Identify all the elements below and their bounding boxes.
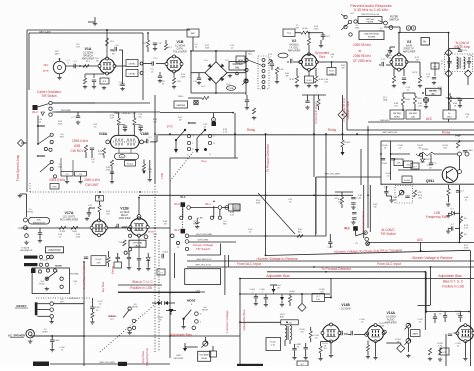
svg-text:2.2K: 2.2K (230, 214, 235, 216)
svg-text:CALIBRATOR: CALIBRATOR (20, 249, 33, 252)
svg-text:2395.4 kHz: 2395.4 kHz (72, 139, 89, 143)
svg-text:CW UNIT: CW UNIT (85, 183, 99, 187)
svg-text:MODE: MODE (188, 121, 197, 125)
svg-text:Keying: Keying (111, 265, 115, 273)
svg-text:CARRIER: CARRIER (232, 63, 243, 66)
svg-text:FUNC: FUNC (39, 283, 45, 285)
svg-text:2nd IF Amp: 2nd IF Amp (454, 45, 471, 49)
svg-text:MODE: MODE (202, 309, 209, 311)
svg-text:1/2 6GH8: 1/2 6GH8 (341, 308, 352, 310)
svg-text:PTT: PTT (148, 230, 154, 234)
svg-text:R-943: R-943 (422, 149, 429, 151)
svg-text:AMPLIFIER: AMPLIFIER (82, 58, 95, 61)
svg-text:METER: METER (393, 113, 401, 115)
svg-text:100K: 100K (464, 247, 469, 249)
svg-text:Adjusting Pots: Adjusting Pots (145, 347, 149, 365)
svg-text:WHT-BLK: WHT-BLK (69, 298, 79, 300)
svg-text:12AU7 CARRIER OSC: 12AU7 CARRIER OSC (114, 112, 137, 115)
svg-text:Frequency Shift: Frequency Shift (426, 215, 448, 219)
svg-text:1M: 1M (397, 341, 400, 343)
svg-text:MODE: MODE (132, 306, 139, 308)
svg-text:Q941: Q941 (426, 179, 434, 183)
svg-text:R-507: R-507 (345, 142, 352, 144)
svg-text:RCV CAL: RCV CAL (40, 259, 48, 262)
svg-text:1M: 1M (416, 59, 419, 61)
svg-text:A.C. SPEAKER: A.C. SPEAKER (8, 335, 25, 338)
svg-text:USB 2393.5 kHz LSB: USB 2393.5 kHz LSB (361, 14, 380, 16)
svg-text:4.7K: 4.7K (464, 227, 469, 229)
svg-text:Positive in LSB: Positive in LSB (442, 285, 463, 289)
svg-text:•Screen Voltage in Receive: •Screen Voltage in Receive (412, 256, 453, 260)
svg-text:220K: 220K (76, 236, 81, 238)
svg-text:1MA: 1MA (383, 98, 388, 101)
svg-text:Receiver Mixer: Receiver Mixer (346, 101, 350, 120)
svg-text:FUNCTION: FUNCTION (49, 250, 61, 252)
svg-text:Bias In T. U. C: Bias In T. U. C (443, 280, 464, 284)
svg-text:RED•BLK: RED•BLK (380, 120, 390, 122)
svg-text:1 Screen Voltage: 1 Screen Voltage (225, 310, 229, 333)
svg-text:AVC: AVC (426, 117, 433, 121)
svg-text:VOLTAGE: VOLTAGE (200, 354, 210, 357)
svg-text:RL2: RL2 (344, 226, 350, 230)
svg-text:6GH8: 6GH8 (467, 331, 473, 333)
svg-text:4.7K: 4.7K (417, 192, 422, 194)
svg-text:R-414: R-414 (60, 231, 66, 233)
svg-text:C-417: C-417 (95, 307, 101, 309)
svg-text:SWITCH: SWITCH (389, 19, 399, 22)
svg-text:AVC: AVC (417, 238, 424, 242)
svg-text:7.5K: 7.5K (126, 253, 131, 255)
svg-text:From ALC Input: From ALC Input (377, 262, 401, 266)
svg-text:1M: 1M (96, 60, 99, 62)
svg-text:C-67: C-67 (325, 36, 331, 38)
svg-text:RELAY: RELAY (121, 214, 129, 217)
svg-text:USB CRYSTAL: USB CRYSTAL (364, 33, 380, 36)
svg-text:Adjustable Bias: Adjustable Bias (242, 309, 246, 330)
svg-text:T/R Switch: T/R Switch (41, 94, 57, 98)
svg-text:100K: 100K (329, 74, 335, 76)
svg-text:Bias In T. U. C.: Bias In T. U. C. (132, 280, 153, 284)
svg-text:BAL: BAL (235, 67, 240, 70)
svg-text:CALIB: CALIB (134, 244, 141, 247)
svg-text:V17A: V17A (65, 211, 74, 215)
svg-text:R-57: R-57 (290, 79, 296, 81)
svg-text:METER: METER (429, 91, 437, 93)
svg-text:MIC GAIN: MIC GAIN (40, 31, 51, 34)
svg-text:WHT/GRN: WHT/GRN (174, 358, 184, 360)
svg-text:1M: 1M (374, 206, 377, 208)
svg-text:▲: ▲ (212, 199, 215, 203)
svg-text:Mode: Mode (109, 314, 117, 318)
svg-text:4.7K: 4.7K (438, 345, 443, 347)
svg-text:V2: V2 (292, 39, 297, 43)
svg-text:MODE: MODE (55, 266, 62, 268)
svg-text:LEVEL: LEVEL (129, 74, 137, 76)
svg-text:PHON: PHON (27, 211, 33, 213)
svg-text:1/2 6EA8: 1/2 6EA8 (120, 211, 130, 214)
svg-text:WHT-RED: WHT-RED (69, 274, 80, 276)
svg-text:Final Tube Amplifier: Final Tube Amplifier (82, 263, 86, 289)
svg-text:To Product Detector: To Product Detector (266, 143, 270, 172)
svg-text:GATE: GATE (412, 333, 418, 336)
svg-text:R-81: R-81 (417, 98, 423, 100)
svg-text:ALC: ALC (298, 231, 302, 234)
svg-text:FOLLOWER: FOLLOWER (173, 51, 187, 54)
svg-text:PNP: PNP (455, 134, 461, 138)
svg-text:0.35 kHz to 2.45 kHz: 0.35 kHz to 2.45 kHz (354, 8, 388, 12)
svg-text:T/R Switch: T/R Switch (380, 232, 396, 236)
svg-text:AMPLIFIER: AMPLIFIER (385, 321, 397, 324)
svg-text:LEVEL: LEVEL (129, 64, 137, 66)
svg-text:RL2: RL2 (174, 202, 180, 206)
svg-text:ZERO: ZERO (394, 117, 400, 119)
svg-text:R-502: R-502 (127, 164, 134, 166)
svg-text:2393.5 kHz: 2393.5 kHz (49, 178, 66, 182)
svg-text:C-949: C-949 (467, 150, 474, 152)
svg-text:to: to (359, 49, 362, 53)
svg-text:V1B: V1B (177, 40, 184, 44)
svg-text:4.7K: 4.7K (442, 352, 447, 354)
svg-text:V12B: V12B (120, 207, 129, 211)
svg-text:2.2K: 2.2K (271, 345, 276, 347)
svg-text:RL2: RL2 (32, 110, 38, 114)
svg-text:2392.95 kHz: 2392.95 kHz (353, 43, 371, 47)
svg-text:RL2: RL2 (174, 228, 180, 232)
svg-text:R-946: R-946 (404, 180, 411, 182)
svg-text:CF 2395 kHz: CF 2395 kHz (353, 59, 372, 63)
svg-text:V16B: V16B (140, 132, 149, 136)
svg-text:Key Bias: Key Bias (101, 281, 105, 292)
svg-text:NOR: NOR (238, 60, 243, 62)
svg-text:R-420: R-420 (96, 259, 103, 261)
svg-text:10K: 10K (316, 299, 320, 301)
svg-text:PTT: PTT (43, 69, 49, 73)
svg-text:1N2071: 1N2071 (423, 159, 431, 161)
svg-text:Adjustable Bias: Adjustable Bias (170, 333, 192, 337)
svg-text:220K: 220K (181, 76, 186, 78)
svg-text:V14B: V14B (341, 303, 350, 307)
svg-text:470K: 470K (106, 169, 111, 171)
svg-text:C-304: C-304 (162, 252, 168, 254)
svg-text:CW KEY: CW KEY (16, 304, 27, 308)
svg-text:T/R Switch: T/R Switch (196, 247, 211, 251)
svg-text:220K: 220K (380, 325, 385, 327)
svg-text:From ALC Input: From ALC Input (237, 262, 261, 266)
svg-text:1/2 6GH8: 1/2 6GH8 (386, 316, 397, 318)
svg-text:RCV AMPLIFIER: RCV AMPLIFIER (60, 219, 78, 222)
svg-text:WHT-RED-PLD: WHT-RED-PLD (196, 259, 212, 261)
svg-text:WHT-GRN-YEL: WHT-GRN-YEL (382, 132, 398, 134)
svg-text:R-59: R-59 (329, 71, 335, 73)
svg-text:OSC: OSC (295, 27, 300, 29)
svg-text:LEVEL: LEVEL (201, 358, 208, 360)
svg-text:1M: 1M (164, 223, 167, 225)
svg-text:C-75: C-75 (462, 50, 468, 52)
svg-text:ADJ: ADJ (447, 116, 451, 119)
svg-text:PTT: PTT (167, 125, 173, 129)
svg-text:CARRIER: CARRIER (176, 104, 186, 107)
svg-text:100K: 100K (72, 231, 77, 233)
svg-text:CRYSTAL: CRYSTAL (133, 241, 144, 244)
svg-text:V16A: V16A (99, 132, 108, 136)
svg-text:R-60: R-60 (307, 80, 313, 82)
svg-text:1M: 1M (179, 119, 182, 121)
svg-text:Adjustable Bias: Adjustable Bias (438, 274, 462, 278)
svg-text:SENSITIVITY: SENSITIVITY (33, 222, 46, 224)
svg-text:From ALC Input: From ALC Input (314, 102, 318, 123)
svg-text:•Screen Voltage to Receive: •Screen Voltage to Receive (256, 257, 297, 261)
svg-text:NULL: NULL (178, 96, 184, 98)
svg-text:V14A: V14A (386, 311, 395, 315)
svg-text:JACK: JACK (54, 52, 60, 55)
svg-text:R-55: R-55 (279, 69, 285, 71)
svg-text:1M: 1M (112, 53, 115, 55)
svg-text:LSB: LSB (160, 173, 164, 179)
svg-text:R-431: R-431 (270, 342, 276, 344)
svg-text:MODE: MODE (37, 154, 46, 158)
svg-text:WHT-GRN: WHT-GRN (198, 240, 209, 242)
svg-text:C-948: C-948 (381, 163, 387, 165)
svg-text:Grid: Grid (319, 55, 325, 59)
svg-text:USB: USB (74, 144, 81, 148)
svg-text:WHT-YEL-YCN: WHT-YEL-YCN (195, 264, 210, 266)
svg-text:Mic: Mic (44, 63, 49, 67)
svg-text:B+: B+ (423, 40, 427, 44)
svg-text:OSC: OSC (52, 187, 57, 189)
svg-text:Relay: Relay (328, 128, 337, 132)
svg-text:R-80: R-80 (405, 99, 411, 101)
svg-text:RL1: RL1 (205, 202, 211, 206)
svg-text:From ALC Input: From ALC Input (361, 211, 365, 232)
svg-text:100K: 100K (58, 123, 63, 125)
svg-text:100K: 100K (205, 47, 210, 49)
svg-text:2396.95 kHz: 2396.95 kHz (353, 54, 371, 58)
svg-text:WHT-YEL-GRN: WHT-YEL-GRN (324, 174, 340, 176)
svg-text:LPB: LPB (196, 291, 201, 293)
svg-text:From Speech Amp: From Speech Amp (16, 155, 20, 182)
svg-text:Relay: Relay (442, 130, 451, 134)
svg-text:R-73: R-73 (413, 72, 419, 74)
svg-text:4.7K: 4.7K (223, 131, 228, 133)
svg-text:100K: 100K (256, 202, 261, 204)
svg-text:Relay: Relay (247, 128, 256, 132)
svg-text:Adjustable Bias: Adjustable Bias (266, 274, 290, 278)
svg-text:MIC: MIC (37, 220, 41, 222)
svg-text:(A): (A) (432, 92, 435, 95)
svg-text:MODE: MODE (187, 299, 196, 303)
svg-text:FILTER: FILTER (367, 22, 374, 24)
svg-text:V3: V3 (407, 40, 412, 44)
svg-text:V1A: V1A (85, 47, 92, 51)
svg-text:KEY: KEY (60, 301, 65, 303)
svg-text:WHT-ORN-GRN: WHT-ORN-GRN (196, 234, 212, 236)
svg-text:LBB: LBB (199, 218, 204, 220)
svg-text:To Product Detector: To Product Detector (321, 267, 352, 271)
svg-text:MIC: MIC (191, 33, 195, 35)
svg-text:SPKR: SPKR (42, 331, 48, 333)
svg-text:METER: METER (409, 113, 417, 115)
svg-text:15K: 15K (397, 163, 401, 165)
svg-text:2395.4 kHz: 2395.4 kHz (84, 178, 101, 182)
svg-text:CW RCV: CW RCV (71, 149, 85, 153)
svg-text:R-56: R-56 (303, 28, 309, 30)
svg-text:Key: Key (201, 159, 207, 163)
svg-text:C-72: C-72 (381, 59, 387, 61)
svg-text:AMPLIFIER: AMPLIFIER (288, 50, 301, 53)
svg-text:AMPLIFIER: AMPLIFIER (118, 217, 130, 220)
svg-text:GRN: GRN (176, 355, 181, 357)
svg-text:TUNE: TUNE (228, 88, 234, 90)
svg-text:AUD: AUD (280, 315, 285, 318)
svg-text:AMPLIFIER: AMPLIFIER (403, 51, 416, 54)
svg-text:33K: 33K (97, 263, 101, 265)
svg-text:C-400: C-400 (54, 340, 60, 342)
svg-text:FILTER: FILTER (368, 37, 376, 39)
svg-text:7.5K: 7.5K (118, 242, 123, 244)
svg-text:AUDIO: AUDIO (387, 318, 394, 321)
svg-text:RL2: RL2 (181, 195, 186, 199)
svg-text:Positive in LSB: Positive in LSB (130, 286, 151, 290)
